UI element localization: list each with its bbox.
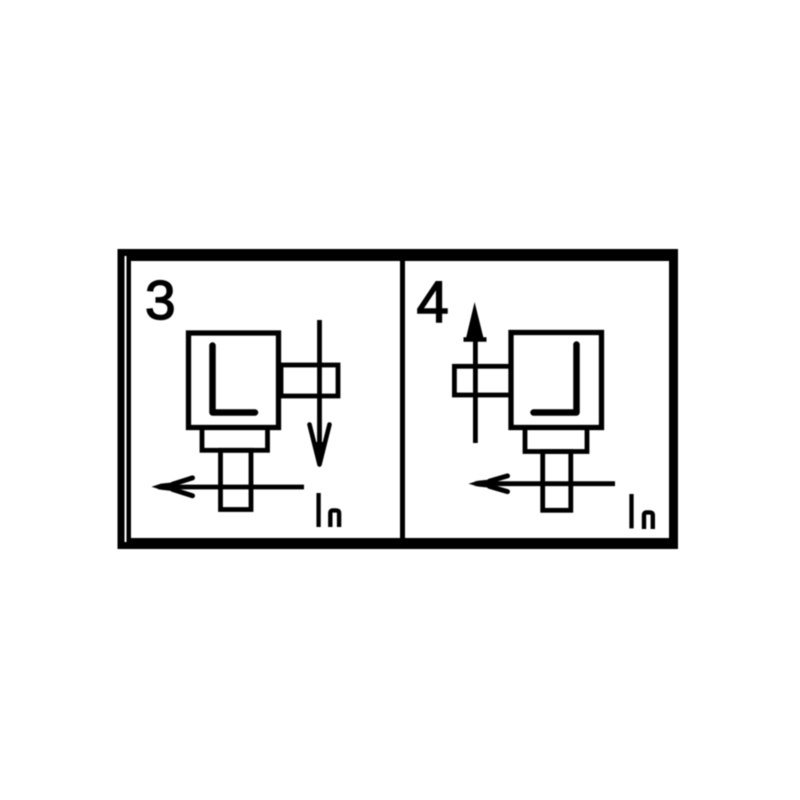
mounting flange 3	[202, 428, 268, 451]
down arrow shaft line 3	[317, 320, 322, 460]
input arrow line 3	[158, 485, 304, 490]
side output shaft 3	[281, 365, 338, 396]
up arrowhead 4	[465, 302, 484, 342]
svg-text:3: 3	[145, 269, 176, 331]
bottom input shaft 3	[221, 450, 252, 509]
gearbox body 4	[511, 333, 602, 428]
In label 3	[316, 493, 320, 527]
svg-text:4: 4	[417, 270, 449, 335]
input arrowhead 4	[469, 479, 497, 489]
In label 4	[629, 494, 633, 528]
gearbox body 3	[189, 333, 279, 428]
L mark inside body 4	[534, 345, 577, 413]
outer frame	[118, 249, 679, 549]
up arrow shaft line 4	[473, 316, 478, 443]
L mark inside body 3	[213, 346, 256, 413]
inner border line	[127, 256, 674, 543]
input arrow line 4	[475, 481, 615, 486]
bottom input shaft 4	[543, 452, 571, 511]
input arrowhead 3	[152, 482, 180, 492]
down arrowhead 3	[310, 425, 330, 465]
mounting flange 4	[525, 428, 587, 452]
side output shaft 4	[454, 366, 511, 395]
cell divider	[400, 256, 405, 542]
